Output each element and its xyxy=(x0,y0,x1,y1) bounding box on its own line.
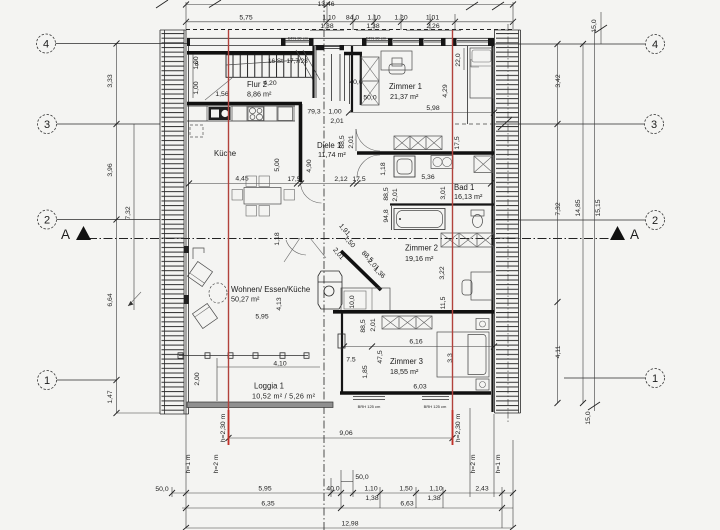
dim 79,3 1,00 2,01 diele xyxy=(307,109,343,126)
svg-text:16,13 m²: 16,13 m² xyxy=(454,192,483,201)
bad double basin xyxy=(431,156,453,169)
svg-text:Loggia 1: Loggia 1 xyxy=(254,382,284,391)
diagonal wall zimmer2 xyxy=(341,250,386,290)
svg-text:3: 3 xyxy=(44,119,50,131)
bad dims 88,5 2,01 rotated xyxy=(383,187,399,222)
wohnen armchair 2 xyxy=(192,303,217,328)
top wall window jambs xyxy=(187,38,494,46)
svg-text:1,18: 1,18 xyxy=(274,232,281,245)
svg-text:94,8: 94,8 xyxy=(383,209,390,222)
top dim row 5,75 etc xyxy=(183,14,516,25)
wohnen armchair 1 xyxy=(187,261,212,286)
loggia railing xyxy=(178,353,309,359)
zimmer1 left wall xyxy=(314,46,353,112)
bottom dim 50,0 small xyxy=(341,474,369,482)
svg-text:8,86 m²: 8,86 m² xyxy=(247,90,272,99)
svg-text:2,43: 2,43 xyxy=(475,486,488,493)
diele door arc zimmer1 xyxy=(356,129,380,151)
svg-text:10,0: 10,0 xyxy=(349,295,356,308)
svg-text:3,96: 3,96 xyxy=(107,163,114,176)
svg-text:18,55 m²: 18,55 m² xyxy=(390,367,419,376)
svg-text:Küche: Küche xyxy=(214,149,236,158)
svg-text:15,15: 15,15 xyxy=(595,199,602,216)
svg-text:3: 3 xyxy=(651,119,657,131)
stairwell side walls xyxy=(332,52,363,105)
grid axis circle 2 right xyxy=(646,211,665,230)
svg-text:A: A xyxy=(61,227,70,242)
toilet xyxy=(471,210,484,228)
grid line 1 xyxy=(57,379,117,381)
svg-text:1,38: 1,38 xyxy=(427,495,440,502)
svg-text:13,46: 13,46 xyxy=(317,1,334,8)
svg-text:3,42: 3,42 xyxy=(555,74,562,87)
svg-text:2,01: 2,01 xyxy=(330,118,343,125)
svg-text:6,35: 6,35 xyxy=(261,501,274,508)
svg-text:1,50: 1,50 xyxy=(399,486,412,493)
grid axis circle 2 left xyxy=(38,210,57,229)
svg-text:DFN 90 cm: DFN 90 cm xyxy=(288,36,309,41)
svg-text:h=1 m: h=1 m xyxy=(495,454,502,473)
svg-text:40,0: 40,0 xyxy=(349,79,362,86)
svg-text:Wohnen/ Essen/Küche: Wohnen/ Essen/Küche xyxy=(231,285,310,294)
svg-text:4,90: 4,90 xyxy=(306,159,313,172)
vertical axis center dash-dot xyxy=(323,0,325,530)
svg-text:84,0: 84,0 xyxy=(346,14,359,21)
zimmer3 left wall xyxy=(338,313,345,392)
svg-text:7.5: 7.5 xyxy=(346,357,356,364)
bad washbasin xyxy=(394,156,415,177)
svg-text:1,38: 1,38 xyxy=(365,495,378,502)
svg-text:50,27 m²: 50,27 m² xyxy=(231,295,260,304)
svg-text:h=2,30 m: h=2,30 m xyxy=(455,413,462,442)
wohnen tv shelf xyxy=(193,248,204,259)
svg-text:6,16: 6,16 xyxy=(409,339,422,346)
zimmer3 dim line 6,16 xyxy=(341,339,497,350)
svg-text:17,5: 17,5 xyxy=(287,176,300,183)
grid axis circle 1 left xyxy=(38,371,57,390)
svg-text:BRH 125 cm: BRH 125 cm xyxy=(358,404,381,409)
svg-text:Zimmer 3: Zimmer 3 xyxy=(390,357,423,366)
left exterior wall hatched strip xyxy=(160,30,189,414)
svg-text:2,01: 2,01 xyxy=(348,135,355,148)
zimmer3 bottom wall xyxy=(340,391,491,395)
roof overhang dashed line top xyxy=(186,29,513,31)
diele wardrobe row xyxy=(394,136,442,150)
wohnen round table xyxy=(209,283,227,303)
svg-text:16 St. 17,7/28: 16 St. 17,7/28 xyxy=(268,58,308,65)
right dim column xyxy=(555,29,603,425)
window top wall lines xyxy=(285,40,488,42)
kitchen counter xyxy=(187,106,295,121)
grid line 3 xyxy=(57,123,160,125)
svg-text:1: 1 xyxy=(44,375,50,387)
zimmer2 dresser xyxy=(341,288,390,312)
red section trace right xyxy=(452,30,454,445)
svg-text:4,45: 4,45 xyxy=(235,176,248,183)
svg-text:A: A xyxy=(630,227,639,242)
zimmer1 bed xyxy=(470,48,493,98)
svg-text:88,5: 88,5 xyxy=(383,187,390,200)
svg-text:4,11: 4,11 xyxy=(555,345,562,358)
svg-text:5,00: 5,00 xyxy=(274,158,281,171)
svg-text:5,95: 5,95 xyxy=(255,314,268,321)
svg-text:BRH 125 cm: BRH 125 cm xyxy=(424,404,447,409)
flur bottom wall xyxy=(187,102,302,106)
svg-text:4: 4 xyxy=(652,39,658,51)
mid dim row kueche xyxy=(186,176,494,187)
zimmer1 desk xyxy=(381,51,412,74)
zimmer3 closet xyxy=(382,316,432,329)
svg-text:2: 2 xyxy=(652,215,658,227)
rotated dims near diagonal stair xyxy=(331,223,356,262)
diele dims 88,5 2,01 rotated xyxy=(339,135,355,148)
stairwell window top xyxy=(316,45,345,50)
svg-text:5,36: 5,36 xyxy=(421,174,434,181)
grid axis circle 3 right xyxy=(645,115,664,134)
dim 22,0 rotated top right xyxy=(455,48,464,70)
svg-text:4,13: 4,13 xyxy=(276,297,283,310)
bottom dim row 12,98 xyxy=(183,521,516,530)
svg-text:h=2 m: h=2 m xyxy=(470,454,477,473)
svg-text:2,01: 2,01 xyxy=(370,318,377,331)
right exterior wall hatched strip xyxy=(493,24,521,424)
zimmer3 small dims xyxy=(346,350,384,378)
bathtub left wall xyxy=(391,206,393,230)
svg-text:Zimmer 2: Zimmer 2 xyxy=(405,244,438,253)
svg-text:1,56: 1,56 xyxy=(215,91,228,98)
svg-text:1,01: 1,01 xyxy=(426,14,439,21)
grid axis circle 3 left xyxy=(38,115,57,134)
svg-text:5,95: 5,95 xyxy=(258,486,271,493)
diele dim labels 40,0 50,0 xyxy=(349,79,376,102)
svg-text:7,32: 7,32 xyxy=(555,202,562,215)
svg-text:Diele 1: Diele 1 xyxy=(317,141,341,150)
svg-text:88,5: 88,5 xyxy=(339,135,346,148)
bottom dim row 2 xyxy=(182,495,513,511)
chimney column xyxy=(318,271,342,309)
zimmer2 bottom wall xyxy=(333,310,494,314)
svg-text:4,10: 4,10 xyxy=(273,361,286,368)
grid line 4 xyxy=(56,43,189,45)
svg-text:5,75: 5,75 xyxy=(239,14,252,21)
svg-text:21,37 m²: 21,37 m² xyxy=(390,92,419,101)
top extension verticals xyxy=(186,2,513,30)
svg-text:4,29: 4,29 xyxy=(442,84,449,97)
svg-text:50,0: 50,0 xyxy=(355,474,368,481)
svg-text:6,03: 6,03 xyxy=(413,384,426,391)
stair flur 2 xyxy=(226,50,320,80)
flur top thick wall xyxy=(187,51,313,55)
zimmer2 desk xyxy=(462,272,492,300)
svg-text:2,12: 2,12 xyxy=(334,176,347,183)
svg-text:4,20: 4,20 xyxy=(263,80,276,87)
svg-text:2,01: 2,01 xyxy=(392,188,399,201)
grid line 2 xyxy=(57,219,160,221)
diele upper closet xyxy=(361,57,379,105)
h=1m h=2m labels xyxy=(185,454,502,473)
kitchen sink xyxy=(209,107,231,120)
kitchen stove xyxy=(248,107,264,121)
door swing lines wohnen xyxy=(284,238,326,262)
bottom main dim row xyxy=(155,486,516,497)
svg-text:1,85: 1,85 xyxy=(362,365,369,378)
svg-text:6,64: 6,64 xyxy=(107,293,114,306)
bad shower xyxy=(474,156,493,173)
svg-text:17,5: 17,5 xyxy=(352,176,365,183)
svg-text:3,33: 3,33 xyxy=(107,74,114,87)
svg-text:1: 1 xyxy=(652,373,658,385)
svg-text:7,32: 7,32 xyxy=(125,206,132,219)
svg-text:47,5: 47,5 xyxy=(377,350,384,363)
grid axis circle 4 right xyxy=(646,35,665,54)
h=2,30 labels xyxy=(220,413,462,442)
top right 15,0 dim xyxy=(466,2,607,44)
loggia parapet gray xyxy=(187,402,333,408)
kitchen cabinet xyxy=(278,107,293,121)
svg-text:11,74 m²: 11,74 m² xyxy=(318,150,346,159)
svg-text:50,0: 50,0 xyxy=(155,486,168,493)
svg-text:3,22: 3,22 xyxy=(439,266,446,279)
zimmer2 top closet xyxy=(441,233,494,247)
svg-text:79,3: 79,3 xyxy=(307,109,320,116)
svg-text:1,18: 1,18 xyxy=(380,162,387,175)
roof window labels xyxy=(288,36,387,41)
bad mid wall xyxy=(390,203,494,205)
bottom dim 9,06 xyxy=(226,430,456,441)
svg-text:12,98: 12,98 xyxy=(341,521,358,528)
bottom extension verticals xyxy=(172,408,513,528)
grid axis circle 1 right xyxy=(646,369,665,388)
zimmer1 side wall xyxy=(467,46,469,124)
svg-text:h=2 m: h=2 m xyxy=(213,454,220,473)
svg-text:1,00: 1,00 xyxy=(193,56,200,69)
zimmer3 bed xyxy=(437,332,489,377)
svg-text:Zimmer 1: Zimmer 1 xyxy=(389,82,422,91)
bad door arc xyxy=(357,155,380,178)
top dim row 1,38 2,26 xyxy=(310,23,461,30)
svg-text:1,10: 1,10 xyxy=(322,14,335,21)
svg-text:Bad 1: Bad 1 xyxy=(454,183,474,192)
svg-text:1,38: 1,38 xyxy=(366,23,379,30)
svg-text:14,85: 14,85 xyxy=(575,199,582,216)
red section trace left xyxy=(228,30,230,445)
bad top wall xyxy=(357,151,494,155)
svg-text:10,52 m² / 5,26 m²: 10,52 m² / 5,26 m² xyxy=(252,392,316,401)
svg-text:11,5: 11,5 xyxy=(440,296,447,309)
svg-text:9,06: 9,06 xyxy=(339,430,352,437)
svg-text:1,00: 1,00 xyxy=(193,81,200,94)
left dim column xyxy=(107,41,160,417)
svg-text:1,47: 1,47 xyxy=(107,390,114,403)
svg-text:88,5: 88,5 xyxy=(360,319,367,332)
zimmer1 small shelf xyxy=(471,59,479,67)
svg-text:5,98: 5,98 xyxy=(426,105,439,112)
svg-text:2: 2 xyxy=(44,215,50,227)
zimmer3 nightstand top xyxy=(476,319,489,330)
kitchen-diele wall xyxy=(301,104,322,203)
svg-text:4: 4 xyxy=(43,39,49,51)
zimmer3 nightstand bottom xyxy=(476,379,489,390)
grid axis circle 4 left xyxy=(37,34,56,53)
svg-text:3,01: 3,01 xyxy=(440,186,447,199)
svg-text:6,63: 6,63 xyxy=(400,501,413,508)
dashed base cabinet xyxy=(190,125,203,137)
svg-text:1,10: 1,10 xyxy=(364,486,377,493)
bottom windows xyxy=(353,397,449,410)
top-left corner tick xyxy=(156,0,168,8)
svg-text:1,10: 1,10 xyxy=(429,486,442,493)
svg-text:50,0: 50,0 xyxy=(363,95,376,102)
red trace bright ends xyxy=(228,410,230,445)
svg-text:2,26: 2,26 xyxy=(426,23,439,30)
svg-text:40,0: 40,0 xyxy=(326,486,339,493)
svg-text:15,0: 15,0 xyxy=(585,411,592,424)
svg-text:1,00: 1,00 xyxy=(328,109,341,116)
svg-text:22,0: 22,0 xyxy=(455,53,462,66)
zimmer1 dim 5,98 xyxy=(346,105,497,116)
section line A-A xyxy=(61,226,639,242)
svg-text:h=2,30 m: h=2,30 m xyxy=(220,413,227,442)
svg-text:17,5: 17,5 xyxy=(454,136,461,149)
zimmer3 dims 88,5 2,01 rotated xyxy=(360,318,377,332)
top exterior wall xyxy=(187,38,494,45)
top dim row 13,46 xyxy=(183,1,516,8)
left dim 7,32 xyxy=(125,124,141,310)
bathtub xyxy=(394,209,445,230)
svg-text:19,16 m²: 19,16 m² xyxy=(405,254,434,263)
svg-text:2,00: 2,00 xyxy=(194,372,201,385)
dim 1,00 rotated pair left xyxy=(193,54,200,98)
wall radiator blocks xyxy=(184,246,189,253)
loggia dim 4,10 xyxy=(194,358,320,401)
dining table xyxy=(232,176,295,216)
svg-text:DFN 90 cm: DFN 90 cm xyxy=(366,36,387,41)
